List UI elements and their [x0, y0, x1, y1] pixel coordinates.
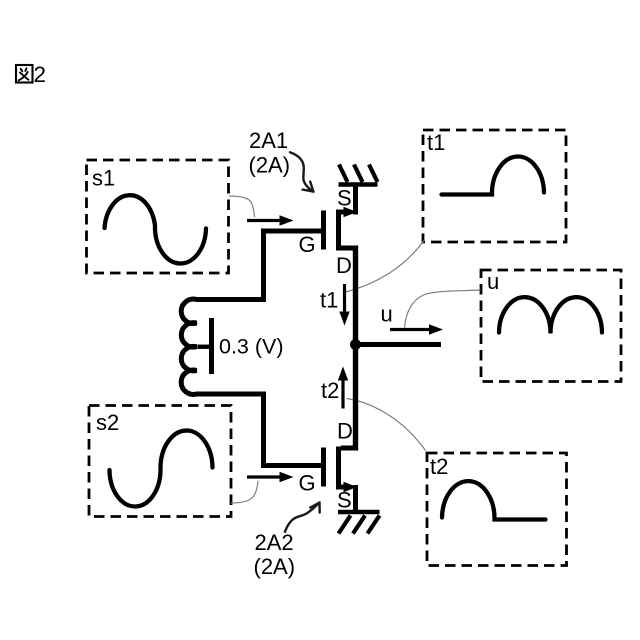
leader line t2 — [347, 399, 426, 451]
box u — [481, 269, 621, 382]
svg-text:s1: s1 — [92, 166, 115, 191]
current arrow t1 (down) — [339, 284, 349, 326]
svg-text:(2A): (2A) — [254, 554, 296, 579]
box t1 — [423, 130, 566, 242]
svg-text:D: D — [337, 419, 353, 444]
box s2 — [89, 406, 231, 517]
svg-text:G: G — [299, 471, 316, 496]
wire source 2A1 to ground — [353, 183, 358, 215]
wire upper gate lead — [261, 229, 322, 234]
transistor 2A1 source arrowhead — [344, 207, 358, 217]
waveform s2 — [110, 431, 213, 507]
svg-text:G: G — [299, 232, 316, 257]
leader line t1 — [344, 241, 424, 293]
inductor L coil — [181, 299, 199, 394]
waveform s1 — [105, 195, 207, 263]
input arrow s2 — [247, 472, 294, 482]
svg-text:D: D — [336, 253, 352, 278]
wire source 2A2 to ground — [353, 485, 358, 511]
svg-text:0.3 (V): 0.3 (V) — [219, 335, 284, 359]
current arrow t2 (up) — [338, 367, 348, 409]
transistor 2A1 (upper MOSFET) — [324, 210, 357, 251]
junction node u — [350, 339, 361, 350]
svg-text:t2: t2 — [321, 378, 339, 403]
waveform u — [499, 297, 602, 333]
ground lower — [338, 512, 380, 534]
figure title 図2 — [16, 65, 33, 83]
svg-text:u: u — [381, 302, 393, 327]
pointer arrow 2A1 — [290, 152, 313, 191]
box s1 — [87, 160, 229, 273]
transistor 2A2 (lower MOSFET) — [324, 447, 357, 490]
waveform t2 — [442, 481, 546, 519]
leader line s1 — [229, 196, 255, 217]
output arrow u — [390, 324, 443, 334]
pointer arrow 2A2 — [285, 503, 320, 532]
svg-text:s2: s2 — [96, 410, 119, 435]
ground upper — [339, 165, 378, 185]
wire bottom lead from inductor — [196, 392, 266, 397]
wire top lead to inductor — [196, 297, 266, 302]
wire drain bus (2A1 drain to 2A2 drain) — [353, 246, 358, 451]
wire left riser upper — [261, 229, 266, 303]
svg-text:S: S — [337, 488, 352, 513]
svg-text:2A2: 2A2 — [255, 530, 294, 555]
inductor tap bar — [209, 318, 214, 374]
svg-text:2A1: 2A1 — [249, 128, 288, 153]
leader line u — [405, 290, 481, 328]
wire left riser lower — [261, 392, 266, 469]
wire output u — [355, 342, 441, 347]
svg-text:S: S — [337, 186, 352, 211]
svg-text:2: 2 — [34, 62, 47, 87]
svg-text:u: u — [487, 269, 499, 294]
svg-text:t1: t1 — [427, 130, 445, 155]
inductor tap tick — [198, 345, 212, 349]
wire lower gate lead — [261, 463, 322, 468]
input arrow s1 — [247, 215, 294, 225]
svg-text:t1: t1 — [320, 288, 338, 313]
svg-text:t2: t2 — [430, 454, 448, 479]
transistor 2A2 source arrowhead — [344, 482, 358, 492]
svg-text:(2A): (2A) — [249, 153, 291, 178]
box t2 — [427, 453, 567, 566]
waveform t1 — [442, 157, 545, 195]
leader line s2 — [231, 481, 258, 504]
